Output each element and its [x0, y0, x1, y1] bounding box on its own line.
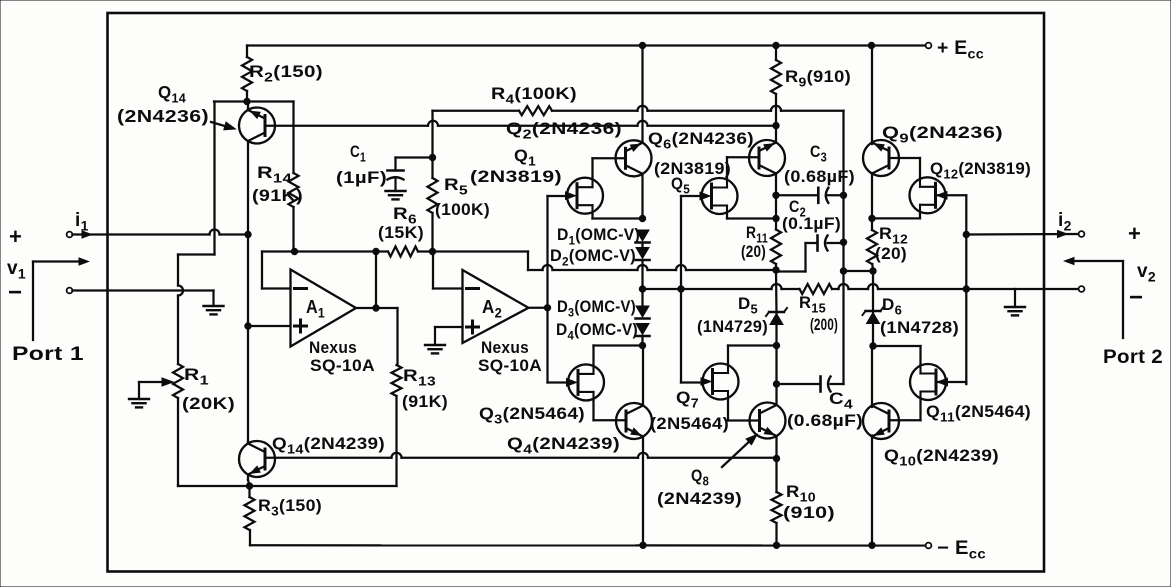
- svg-text:(20): (20): [741, 242, 766, 261]
- node R12 bottom: [870, 268, 876, 274]
- terminal -Ecc: [926, 543, 932, 549]
- wire Q10 collector: [871, 346, 873, 407]
- wire bus2 left: [643, 288, 682, 290]
- v2 bracket line: [1122, 261, 1124, 338]
- label Q1 value: [470, 167, 562, 186]
- wire Q9 emitter: [871, 173, 873, 218]
- ground A2: [425, 327, 445, 353]
- label D6 value: [880, 318, 959, 337]
- label Q14 value: [117, 106, 209, 126]
- svg-text:(2N5464): (2N5464): [650, 414, 729, 433]
- svg-text:(1N4728): (1N4728): [880, 318, 959, 337]
- arrow Q8 label: [722, 435, 757, 468]
- wire C4 right: [831, 195, 844, 384]
- wire R6 right: [418, 250, 433, 252]
- label D1: [557, 226, 640, 248]
- wire Q1 drain: [593, 158, 626, 177]
- capacitor C2: [818, 236, 828, 251]
- node C3 left: [773, 192, 779, 198]
- label Q13: [272, 434, 385, 457]
- label R6 value: [378, 223, 424, 242]
- wire Q11 gate: [936, 382, 966, 384]
- label C4: [829, 389, 854, 412]
- node A2out: [544, 305, 550, 311]
- label Q12: [930, 159, 1031, 182]
- node R2-Q14: [244, 98, 250, 104]
- node bus2-681: [678, 286, 684, 292]
- wire bus2 right: [832, 284, 966, 289]
- node rail-R9: [773, 42, 779, 48]
- wire Q12 gate: [936, 195, 967, 384]
- label D2: [550, 247, 636, 269]
- terminal v2-minus: [1079, 286, 1085, 292]
- resistor R10: [772, 459, 782, 546]
- node x843-271: [840, 268, 846, 274]
- svg-text:SQ-10A: SQ-10A: [478, 356, 542, 375]
- diode D3: [636, 306, 650, 319]
- label Q4: [507, 434, 620, 457]
- node D6 bottom: [870, 343, 876, 349]
- transistor Q4: [616, 403, 652, 439]
- wire R1 to Q13e: [178, 484, 250, 487]
- wire Q14 top link: [214, 102, 294, 255]
- svg-text:(0.68µF): (0.68µF): [784, 167, 855, 186]
- wire Q13e to R13: [250, 485, 397, 487]
- svg-text:(1µF): (1µF): [336, 168, 387, 187]
- label R5 value: [435, 200, 490, 219]
- wire Q9 base: [889, 158, 920, 178]
- ground v1: [204, 291, 224, 315]
- wire C1 top: [396, 158, 433, 171]
- label R13: [403, 366, 436, 389]
- label Q8 value: [657, 489, 742, 508]
- wire D6 to node: [872, 324, 874, 347]
- wire v1-minus: [72, 289, 213, 291]
- label D6: [882, 295, 902, 318]
- svg-text:Port 2: Port 2: [1103, 347, 1163, 368]
- wire Q13 base line: [265, 453, 777, 458]
- label C3 value: [784, 167, 855, 186]
- wire Q4 emitter: [642, 437, 644, 546]
- label C2 value: [782, 214, 841, 233]
- wire D5 to C4: [775, 346, 777, 385]
- node A1out: [373, 305, 379, 311]
- R1 wiper arrow: [139, 378, 173, 386]
- A1 minus sign: [295, 287, 307, 290]
- wire Q14 base line: [265, 121, 776, 126]
- arrow i2 current: [1058, 231, 1068, 238]
- capacitor C4: [821, 377, 831, 392]
- label Q9: [882, 123, 1003, 146]
- label Q7 value: [650, 414, 729, 433]
- svg-text:(2N4239): (2N4239): [657, 489, 742, 508]
- wire i2: [966, 233, 1078, 236]
- svg-text:(91K): (91K): [252, 186, 303, 205]
- label Q14: [158, 82, 186, 106]
- label C3: [810, 142, 827, 165]
- label R10 value: [783, 503, 835, 522]
- label minus v1: [8, 279, 22, 306]
- wire Q1 gate: [548, 195, 568, 197]
- label D4: [556, 321, 638, 343]
- node D1 top: [639, 215, 645, 221]
- label v2: [1137, 261, 1156, 285]
- label Q10: [884, 446, 999, 469]
- node D4 bottom: [639, 342, 645, 348]
- wire A1 output: [356, 307, 398, 309]
- label Q1: [514, 146, 536, 169]
- label R15: [799, 293, 826, 316]
- wire Q6 collector: [775, 126, 777, 143]
- ground v2: [1005, 289, 1025, 315]
- transistor Q7: [701, 363, 739, 400]
- resistor R5: [428, 158, 438, 252]
- wire -Ecc rail: [250, 544, 926, 546]
- label A2 SQ-10A: [478, 356, 542, 375]
- wire A2 minus: [433, 252, 463, 289]
- terminal +Ecc: [926, 43, 932, 49]
- wire A2 plus: [435, 326, 463, 328]
- svg-text:(0.68µF): (0.68µF): [787, 411, 863, 430]
- node rail-Q9: [868, 42, 874, 48]
- wire D2-D3 gap: [641, 244, 643, 346]
- resistor R12: [867, 218, 877, 271]
- transistor Q12: [910, 177, 948, 214]
- wire Q5 source: [727, 215, 776, 219]
- label R6: [393, 204, 417, 227]
- wire 843 to 873: [844, 270, 874, 272]
- v2 bracket arrow: [1065, 258, 1124, 265]
- resistor R6: [388, 247, 418, 257]
- capacitor C3: [818, 188, 828, 203]
- label R1 value: [182, 394, 235, 413]
- wire Q1 source: [593, 214, 643, 218]
- diode D1: [636, 230, 650, 243]
- A2 plus sign: [467, 321, 479, 333]
- svg-text:(0.1µF): (0.1µF): [782, 214, 841, 233]
- label Q7: [676, 388, 699, 411]
- wire gate bus left: [546, 196, 548, 383]
- label R12: [879, 224, 908, 247]
- wire Q8 collector: [775, 384, 777, 405]
- label D5: [738, 294, 758, 317]
- wire Q13 emitter: [248, 475, 250, 487]
- node R6-R5: [429, 248, 435, 254]
- wire R11 to D5: [775, 270, 778, 314]
- label D5 value: [697, 317, 768, 336]
- diode D4: [636, 324, 650, 337]
- wire Q9 collector: [871, 46, 873, 145]
- wire R4 right: [552, 106, 844, 196]
- node Q8 emitter: [773, 455, 779, 461]
- wire Q3 drain: [594, 346, 643, 364]
- wire Q10 emitter: [871, 436, 873, 546]
- wire D5 to Q7d: [775, 325, 777, 346]
- label R11: [746, 223, 768, 246]
- wire Q2 collector: [641, 46, 643, 143]
- A2 minus sign: [467, 287, 479, 290]
- label R1: [184, 365, 209, 388]
- label R10: [786, 482, 816, 505]
- wire bus1 to C2: [776, 243, 818, 272]
- arrow i1 current: [82, 231, 92, 238]
- transistor Q13: [239, 441, 275, 477]
- label R5: [444, 175, 468, 198]
- label R2: [249, 62, 323, 85]
- label A1: [306, 296, 325, 321]
- label minus v2: [1129, 284, 1143, 311]
- resistor R4: [519, 106, 552, 115]
- label A2: [482, 296, 502, 321]
- ground C1: [386, 180, 406, 200]
- diode D2: [636, 248, 650, 261]
- node R11 top: [773, 215, 779, 221]
- svg-text:+: +: [1128, 221, 1141, 246]
- label C1 value: [336, 168, 387, 187]
- op-amp A1: [291, 270, 357, 347]
- svg-text:(2N3819): (2N3819): [470, 167, 562, 186]
- node rail-R10: [773, 542, 779, 548]
- wire Q14 collector bus: [247, 141, 249, 442]
- wire Q6 emitter: [775, 174, 777, 219]
- wire Q14 emitter: [247, 102, 249, 111]
- resistor R3: [245, 486, 255, 545]
- terminal i2: [1079, 231, 1085, 237]
- label R4: [491, 84, 577, 107]
- label Port 1: [12, 344, 84, 365]
- wire D6 to Q11 drain: [873, 346, 921, 364]
- label D3: [557, 298, 636, 320]
- wire Q4 collector: [642, 346, 644, 406]
- transistor Q6: [749, 140, 785, 176]
- node fb-A1out: [373, 248, 379, 254]
- label v1: [7, 258, 26, 282]
- wire gate bus right: [680, 196, 682, 383]
- wire feedback: [262, 250, 388, 252]
- arrow Q14 label: [211, 122, 236, 130]
- resistor R15: [800, 284, 833, 294]
- v1 bracket line: [32, 262, 34, 341]
- label Q6 value2: [654, 159, 731, 178]
- label C4 value: [787, 411, 863, 430]
- svg-text:(2N3819): (2N3819): [654, 159, 731, 178]
- node i2: [963, 231, 969, 237]
- op-amp A2: [463, 270, 529, 343]
- label -Ecc: [937, 538, 986, 562]
- svg-text:+: +: [9, 224, 22, 249]
- wire A2 output: [529, 307, 548, 309]
- zener D5: [766, 308, 787, 325]
- svg-text:Nexus: Nexus: [481, 338, 529, 357]
- resistor R14: [289, 102, 299, 252]
- transistor Q10: [863, 403, 899, 439]
- svg-text:(910): (910): [783, 503, 835, 522]
- svg-text:Nexus: Nexus: [309, 338, 357, 357]
- terminal v1-minus: [67, 288, 73, 294]
- wire v2-minus: [966, 288, 1078, 290]
- svg-text:(1N4729): (1N4729): [697, 317, 768, 336]
- svg-text:(200): (200): [810, 315, 838, 334]
- label R3: [258, 496, 322, 519]
- wire fb to A1out: [375, 252, 377, 309]
- node C2-right: [840, 239, 846, 245]
- label Q3: [479, 404, 585, 427]
- svg-text:(91K): (91K): [402, 392, 448, 411]
- wire Q5 gate: [681, 195, 703, 197]
- label A2 Nexus: [481, 338, 529, 357]
- node rail-Q10: [869, 542, 875, 548]
- wire left bus step: [178, 255, 215, 365]
- node Q7 drain: [773, 342, 779, 348]
- wire A1 plus input: [248, 325, 291, 327]
- node C4 left: [773, 381, 779, 387]
- label R11 value: [741, 242, 766, 261]
- node bus2-v2: [963, 286, 969, 292]
- wire Q12 source: [872, 214, 920, 219]
- svg-text:(15K): (15K): [378, 223, 424, 242]
- node R9 bottom: [773, 122, 779, 128]
- label A1 Nexus: [309, 338, 357, 357]
- node bus1-R11: [773, 267, 779, 273]
- transistor Q3: [567, 364, 605, 401]
- wire R12b to D6: [872, 271, 874, 312]
- label Q8: [691, 466, 709, 489]
- wire Q3 gate: [548, 381, 569, 383]
- node R12 top: [869, 215, 875, 221]
- label R15 value: [810, 315, 838, 334]
- resistor R13: [392, 308, 402, 486]
- label Q6: [648, 129, 754, 152]
- label R13 value: [402, 392, 448, 411]
- resistor R1: [173, 364, 183, 486]
- wire Q7 source: [728, 400, 760, 421]
- resistor R9: [771, 46, 781, 126]
- terminal i1: [67, 232, 73, 238]
- transistor Q2: [616, 140, 652, 176]
- svg-text:(20): (20): [875, 244, 907, 263]
- transistor Q11: [910, 364, 948, 401]
- node C3 right: [840, 192, 846, 198]
- wire +Ecc rail: [247, 44, 926, 46]
- svg-text:(2N4236): (2N4236): [117, 106, 209, 126]
- node R14-fb: [291, 248, 297, 254]
- wire Q7 gate: [681, 381, 704, 383]
- label plus v2: [1128, 221, 1141, 246]
- label i1: [75, 210, 89, 234]
- label A1 SQ-10A: [310, 356, 375, 375]
- label +Ecc: [937, 38, 984, 62]
- wire D2 to node: [641, 261, 643, 289]
- label Q11: [926, 402, 1031, 425]
- v1 bracket arrow: [33, 258, 89, 265]
- label R14: [257, 163, 293, 186]
- capacitor C1: [388, 171, 404, 180]
- transistor Q5: [700, 178, 738, 215]
- zener D6: [863, 307, 884, 324]
- transistor Q9: [863, 140, 899, 176]
- wire A1 minus input: [262, 252, 291, 289]
- node i1-bus: [245, 231, 251, 237]
- wire bus1: [433, 252, 777, 271]
- wire Q5 drain: [727, 157, 759, 177]
- svg-text:(20K): (20K): [182, 394, 235, 413]
- resistor R11: [771, 219, 781, 271]
- wire bus2 mid: [681, 284, 800, 289]
- svg-text:Port 1: Port 1: [12, 344, 84, 365]
- node diode mid: [639, 286, 645, 292]
- label i2: [1058, 210, 1072, 234]
- label Q2: [506, 119, 622, 142]
- wire C2 right: [828, 242, 844, 244]
- label C1: [350, 142, 366, 165]
- wire Q2 emitter: [641, 174, 643, 219]
- wire Q13 collector: [247, 441, 249, 444]
- label Port 2: [1103, 347, 1163, 368]
- wire C3 right: [828, 194, 844, 196]
- node rail-Q4: [640, 542, 646, 548]
- wire C3 left: [776, 194, 818, 196]
- wire i1: [72, 230, 245, 235]
- svg-text:SQ-10A: SQ-10A: [310, 356, 375, 375]
- transistor Q14: [239, 108, 275, 144]
- label R12 value: [875, 244, 907, 263]
- wire R4 left: [433, 111, 520, 158]
- wire C4 left: [777, 383, 821, 385]
- label Q5: [671, 174, 690, 197]
- node Q13 emitter: [246, 483, 252, 489]
- border frame: [108, 13, 1045, 572]
- node A1plus-bus: [245, 323, 251, 329]
- ground R1: [129, 382, 149, 407]
- wire Q11 source: [890, 401, 921, 421]
- label R9: [785, 67, 851, 90]
- svg-text:−: −: [1129, 284, 1143, 311]
- label plus v1: [9, 224, 22, 249]
- node rail-Q2: [639, 42, 645, 48]
- wire Q7 drain link: [728, 346, 777, 364]
- wire Q3 source: [594, 401, 627, 420]
- transistor Q1: [566, 177, 604, 214]
- svg-text:(100K): (100K): [435, 200, 490, 219]
- svg-text:−: −: [8, 279, 22, 306]
- resistor R2: [242, 46, 252, 102]
- A1 plus sign: [295, 320, 307, 332]
- transistor Q8: [750, 403, 786, 439]
- label R14 value: [252, 186, 303, 205]
- node C1-R5-R4: [429, 154, 435, 160]
- wire Q8 emitter: [775, 436, 777, 459]
- label C2: [789, 197, 806, 220]
